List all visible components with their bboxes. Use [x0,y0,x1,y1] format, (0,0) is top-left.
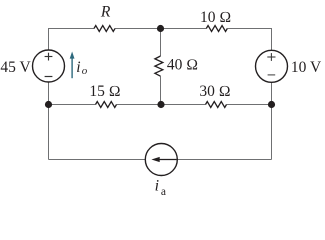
resistor 30ohm zigzag [206,102,227,108]
svg-text:10 V: 10 V [291,59,322,76]
wire: middle vertical stub from top node to 40ohm [160,29,162,57]
svg-text:45 V: 45 V [0,59,31,76]
wire: middle row 15ohm to center node to 30ohm [117,104,206,106]
10V minus sign [268,74,276,76]
45V minus sign [45,76,53,78]
svg-text:i: i [155,177,159,194]
wire: bottom right from current source to corner [177,159,271,161]
node dot middle center [157,101,164,108]
svg-text:30 Ω: 30 Ω [199,83,230,100]
wire: top-right corner from 10ohm to 10V source top [227,29,271,51]
svg-text:10 Ω: 10 Ω [200,9,231,26]
current source arrow pointing left [151,157,176,162]
voltage source 45V circle [33,50,65,82]
resistor 10ohm zigzag [206,26,227,32]
svg-text:15 Ω: 15 Ω [89,83,120,100]
node dot top middle [157,25,164,32]
wire: top-left corner from 45V source top to R [49,29,95,51]
resistor 40ohm vertical zigzag [155,56,163,76]
svg-text:i: i [76,59,80,76]
wire: middle vertical stub from 40ohm to center node [160,76,162,104]
svg-text:a: a [161,186,166,198]
10V plus sign [267,53,275,61]
node dot middle right [268,101,275,108]
wire: bottom left from corner to current source [49,159,146,161]
svg-text:40 Ω: 40 Ω [167,57,198,74]
svg-text:o: o [82,65,88,77]
resistor 15ohm zigzag [96,102,117,108]
wire: top middle between R and 10ohm [115,28,206,30]
45V plus sign [45,53,53,61]
resistor R zigzag [94,26,115,32]
i_o arrow (teal) [70,52,75,79]
svg-text:R: R [100,4,111,21]
voltage source 10V circle [256,50,288,82]
wire: middle row 30ohm to right node [227,104,272,106]
wire: right vertical from 10V bottom through node to bottom-right corner [271,83,273,160]
wire: middle row left node to 15ohm [49,104,96,106]
current source ia circle [145,144,177,176]
node dot middle left [45,101,52,108]
wire: left vertical from 45V bottom through node to bottom-left corner [48,82,50,160]
